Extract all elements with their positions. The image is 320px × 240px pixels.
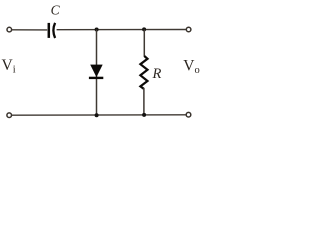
terminal top-right [186, 27, 191, 32]
resistor R zigzag [140, 56, 147, 89]
wire top-left (input to capacitor) [12, 29, 47, 31]
node: top junction of resistor branch [142, 27, 146, 31]
wire bottom [12, 114, 186, 116]
terminal top-left [7, 27, 12, 32]
wire resistor branch vertical (bottom lead) [143, 88, 145, 115]
terminal bottom-left [7, 113, 12, 118]
wire resistor branch vertical (top lead) [143, 29, 145, 56]
terminal bottom-right [186, 112, 191, 117]
capacitor C [49, 23, 55, 38]
svg-text:R: R [152, 66, 162, 82]
svg-text:C: C [51, 3, 61, 18]
wire diode branch vertical [96, 30, 98, 116]
node: bottom junction of resistor branch [142, 113, 146, 117]
node: bottom junction of diode branch [95, 113, 99, 117]
diode D (anode top, cathode bar below) [89, 65, 103, 78]
node: top junction of diode branch [95, 28, 99, 32]
wire top (capacitor to top-right terminal) [57, 29, 187, 31]
